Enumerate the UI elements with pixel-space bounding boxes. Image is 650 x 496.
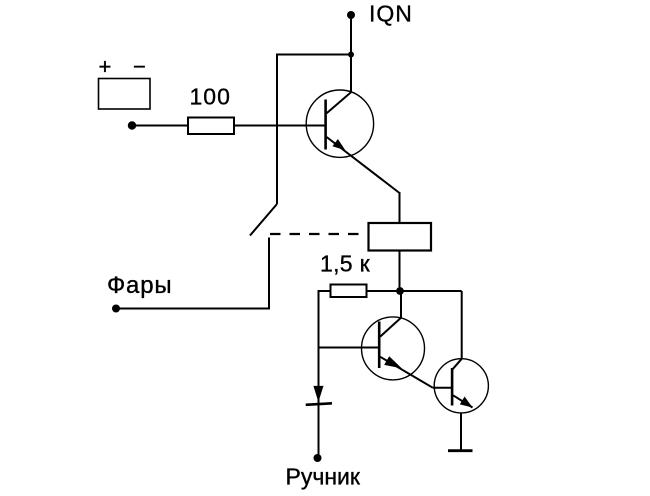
wire right branch down to Q3 collector	[461, 291, 463, 359]
wire Q1 emitter down to relay	[399, 192, 401, 223]
wire left branch down to diode	[318, 290, 320, 455]
wire junction to left branch	[276, 54, 351, 56]
node IQN terminal	[347, 11, 355, 19]
node Ручник terminal	[314, 454, 322, 462]
switch S1 arm	[250, 204, 277, 236]
transistor Q2	[362, 317, 433, 388]
wire Q2 base	[319, 347, 380, 349]
svg-text:+: +	[99, 54, 112, 79]
node battery terminal	[128, 121, 136, 129]
transistor Q3	[434, 359, 488, 413]
svg-text:Фары: Фары	[107, 272, 172, 299]
diode VD1 cathode bar	[306, 403, 332, 405]
resistor R2 body	[331, 285, 367, 298]
wire relay to junction node	[399, 251, 401, 293]
ground	[448, 449, 473, 452]
svg-text:−: −	[133, 54, 146, 79]
node junction below relay	[396, 287, 404, 295]
wire Q3 emitter to ground	[460, 413, 462, 451]
node Фары terminal	[112, 305, 120, 313]
relay K1 coil	[369, 223, 432, 251]
wire left branch vertical to switch	[276, 54, 278, 205]
wire to Фары terminal	[116, 308, 270, 310]
node junction on collector net	[348, 52, 354, 58]
svg-text:100: 100	[190, 84, 231, 110]
transistor Q1	[306, 90, 399, 193]
wire left to resistor R2	[319, 290, 331, 292]
mechanical link dashed to relay	[270, 233, 369, 235]
wire IQN terminal to junction	[350, 15, 352, 55]
wire Q2 collector up to junction	[400, 291, 402, 318]
svg-text:Ручник: Ручник	[286, 464, 361, 490]
svg-text:1,5 к: 1,5 к	[320, 251, 371, 277]
battery B1	[99, 79, 151, 110]
wire Q2 emitter to Q3 base	[433, 387, 452, 389]
wire resistor R2 to junction and right branch	[367, 290, 462, 292]
resistor R1 body	[188, 118, 234, 135]
wire Q1 collector up to junction	[350, 55, 352, 93]
wire switch pivot down	[268, 238, 270, 309]
wire terminal to resistor R1	[132, 125, 188, 127]
wire resistor R1 to Q1 base	[234, 125, 325, 127]
svg-text:IQN: IQN	[369, 1, 413, 27]
diode VD1 arrow	[313, 386, 323, 402]
